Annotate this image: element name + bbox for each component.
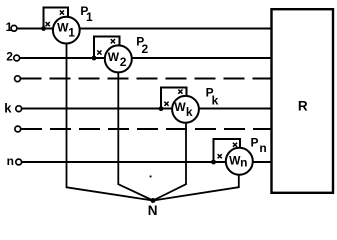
terminal k (16, 106, 22, 112)
svg-text:k: k (212, 94, 219, 108)
W2 meter circle (105, 45, 132, 72)
continuation dot (150, 176, 152, 178)
svg-text:k: k (186, 105, 193, 119)
svg-text:n: n (259, 141, 266, 155)
load rectangle R (272, 9, 334, 193)
svg-text:W: W (174, 100, 186, 114)
svg-text:1: 1 (6, 20, 13, 34)
W1 polarity mark (line) (46, 22, 50, 26)
wattmeter Wn drop wire to node N (153, 175, 239, 201)
Wn meter circle (226, 148, 253, 175)
svg-text:k: k (4, 101, 12, 116)
Wk voltage-coil loop (161, 87, 187, 108)
wire line2 (20, 57, 272, 59)
Wk meter circle (172, 96, 199, 123)
svg-text:2: 2 (142, 42, 149, 56)
svg-text:2: 2 (6, 50, 13, 64)
node N dot (151, 198, 156, 203)
Wk polarity mark (loop) (178, 90, 182, 94)
Wn junction dot (211, 160, 216, 165)
W1 meter circle (53, 17, 80, 44)
terminal n (16, 159, 22, 165)
svg-text:1: 1 (86, 10, 93, 24)
svg-text:n: n (240, 156, 247, 170)
wire line1 (17, 28, 272, 30)
wattmeter Wk drop wire to node N (153, 124, 186, 201)
wattmeter W1 drop wire to node N (67, 44, 154, 201)
svg-text:R: R (298, 98, 308, 113)
wattmeter W2 drop wire to node N (118, 73, 153, 201)
Wn polarity mark (line) (218, 154, 222, 158)
svg-text:W: W (57, 21, 69, 35)
W1 junction dot (41, 26, 46, 31)
svg-text:1: 1 (68, 26, 75, 40)
svg-text:n: n (7, 154, 14, 168)
W2 voltage-coil loop (94, 37, 119, 58)
terminal phantom B (15, 126, 21, 132)
wire line n (22, 161, 272, 163)
W2 polarity mark (line) (97, 50, 101, 54)
W1 voltage-coil loop (44, 8, 68, 29)
W2 junction dot (92, 56, 97, 61)
Wk junction dot (159, 106, 164, 111)
terminal 1 (11, 25, 17, 31)
wire dashed-phantom-line B (21, 128, 272, 130)
terminal phantom A (15, 76, 21, 82)
terminal 2 (14, 55, 20, 61)
Wn polarity mark (loop) (233, 143, 237, 147)
svg-text:P: P (251, 136, 259, 150)
wire dashed-phantom-line A (20, 78, 271, 80)
Wn voltage-coil loop (214, 139, 241, 162)
svg-text:2: 2 (120, 55, 127, 69)
svg-text:W: W (108, 50, 120, 64)
Wk polarity mark (line) (164, 102, 168, 106)
wire line k (22, 108, 272, 110)
svg-text:N: N (148, 203, 158, 218)
W1 polarity mark (loop) (60, 10, 64, 14)
W2 polarity mark (loop) (111, 39, 115, 43)
